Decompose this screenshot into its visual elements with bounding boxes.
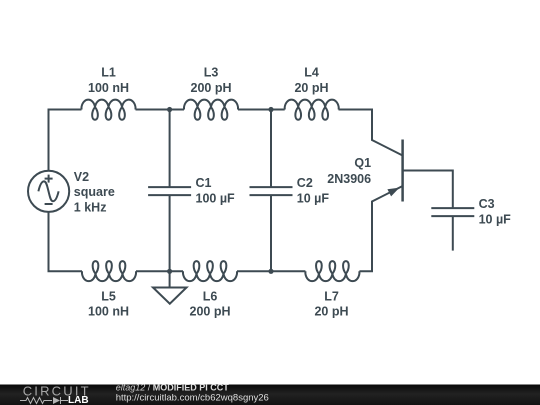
svg-text:L6: L6 xyxy=(203,289,218,303)
wire C1 top lead xyxy=(169,110,171,188)
wire V2 minus terminal to bottom rail and to L5 pin 1 xyxy=(49,212,83,271)
svg-text:L7: L7 xyxy=(324,289,339,303)
inductor L1 xyxy=(82,100,136,120)
voltage source V2 xyxy=(28,171,69,212)
node A junction dot xyxy=(167,107,172,112)
svg-text:20 pH: 20 pH xyxy=(294,81,328,95)
wire V2 plus terminal to top rail and to L1 pin 1 xyxy=(49,110,82,171)
node D junction dot xyxy=(268,269,273,274)
wire C2 top lead xyxy=(270,110,272,188)
wire bottom rail L6 pin 2 to node D to L7 pin 1 xyxy=(237,270,305,272)
capacitor C1 xyxy=(148,187,191,195)
wire top rail L1 pin 2 to node A to L3 pin 1 xyxy=(136,109,185,111)
svg-text:C1: C1 xyxy=(196,176,212,190)
svg-text:C3: C3 xyxy=(479,197,495,211)
ground node junction dot xyxy=(167,269,172,274)
inductor L4 xyxy=(285,100,339,120)
wire L7 pin 2 to Q1 emitter xyxy=(359,186,402,271)
svg-text:100 µF: 100 µF xyxy=(196,192,236,206)
svg-text:10 µF: 10 µF xyxy=(479,213,512,227)
svg-text:2N3906: 2N3906 xyxy=(327,172,371,186)
transistor Q1 base bar xyxy=(401,140,404,202)
wire C1 bottom lead xyxy=(169,195,171,271)
svg-text:square: square xyxy=(74,185,115,199)
svg-text:200 pH: 200 pH xyxy=(191,81,232,95)
svg-text:L5: L5 xyxy=(101,289,116,303)
svg-text:100 nH: 100 nH xyxy=(88,305,129,319)
wire L4 pin 2 to Q1 collector xyxy=(339,110,403,156)
svg-text:200 pH: 200 pH xyxy=(190,305,231,319)
node B junction dot xyxy=(268,107,273,112)
footer bar xyxy=(0,385,540,405)
svg-text:Q1: Q1 xyxy=(354,156,371,170)
svg-text:L1: L1 xyxy=(101,65,116,79)
inductor L5 xyxy=(82,261,136,281)
svg-text:eltag12 / MODIFIED PI CCT: eltag12 / MODIFIED PI CCT xyxy=(116,382,230,392)
wire C2 bottom lead xyxy=(270,195,272,271)
svg-text:1 kHz: 1 kHz xyxy=(74,201,107,215)
ground xyxy=(153,271,187,303)
capacitor C2 xyxy=(250,187,293,195)
svg-text:10 µF: 10 µF xyxy=(297,192,330,206)
svg-text:LAB: LAB xyxy=(68,395,89,405)
svg-text:L3: L3 xyxy=(204,65,219,79)
svg-text:100 nH: 100 nH xyxy=(88,81,129,95)
wire top rail L3 pin 2 to node B to L4 pin 1 xyxy=(238,109,285,111)
wire bottom rail L5 pin 2 to ground node to L6 pin 1 xyxy=(136,270,183,272)
wire Q1 base to C3 top lead xyxy=(403,171,453,209)
CircuitLab logo diode triangle xyxy=(53,397,60,404)
svg-text:http://circuitlab.com/cb62wq8s: http://circuitlab.com/cb62wq8sgny26 xyxy=(116,392,269,403)
svg-text:L4: L4 xyxy=(304,65,319,79)
capacitor C3 xyxy=(431,208,474,216)
CircuitLab logo resistor zigzag and wire xyxy=(20,397,68,404)
svg-text:20 pH: 20 pH xyxy=(314,305,348,319)
inductor L7 xyxy=(305,261,359,281)
svg-text:C2: C2 xyxy=(297,176,313,190)
inductor L6 xyxy=(183,261,237,281)
wire C3 bottom lead xyxy=(452,216,454,251)
transistor Q1 emitter arrow xyxy=(387,188,399,197)
svg-text:V2: V2 xyxy=(74,170,89,184)
inductor L3 xyxy=(184,100,238,120)
